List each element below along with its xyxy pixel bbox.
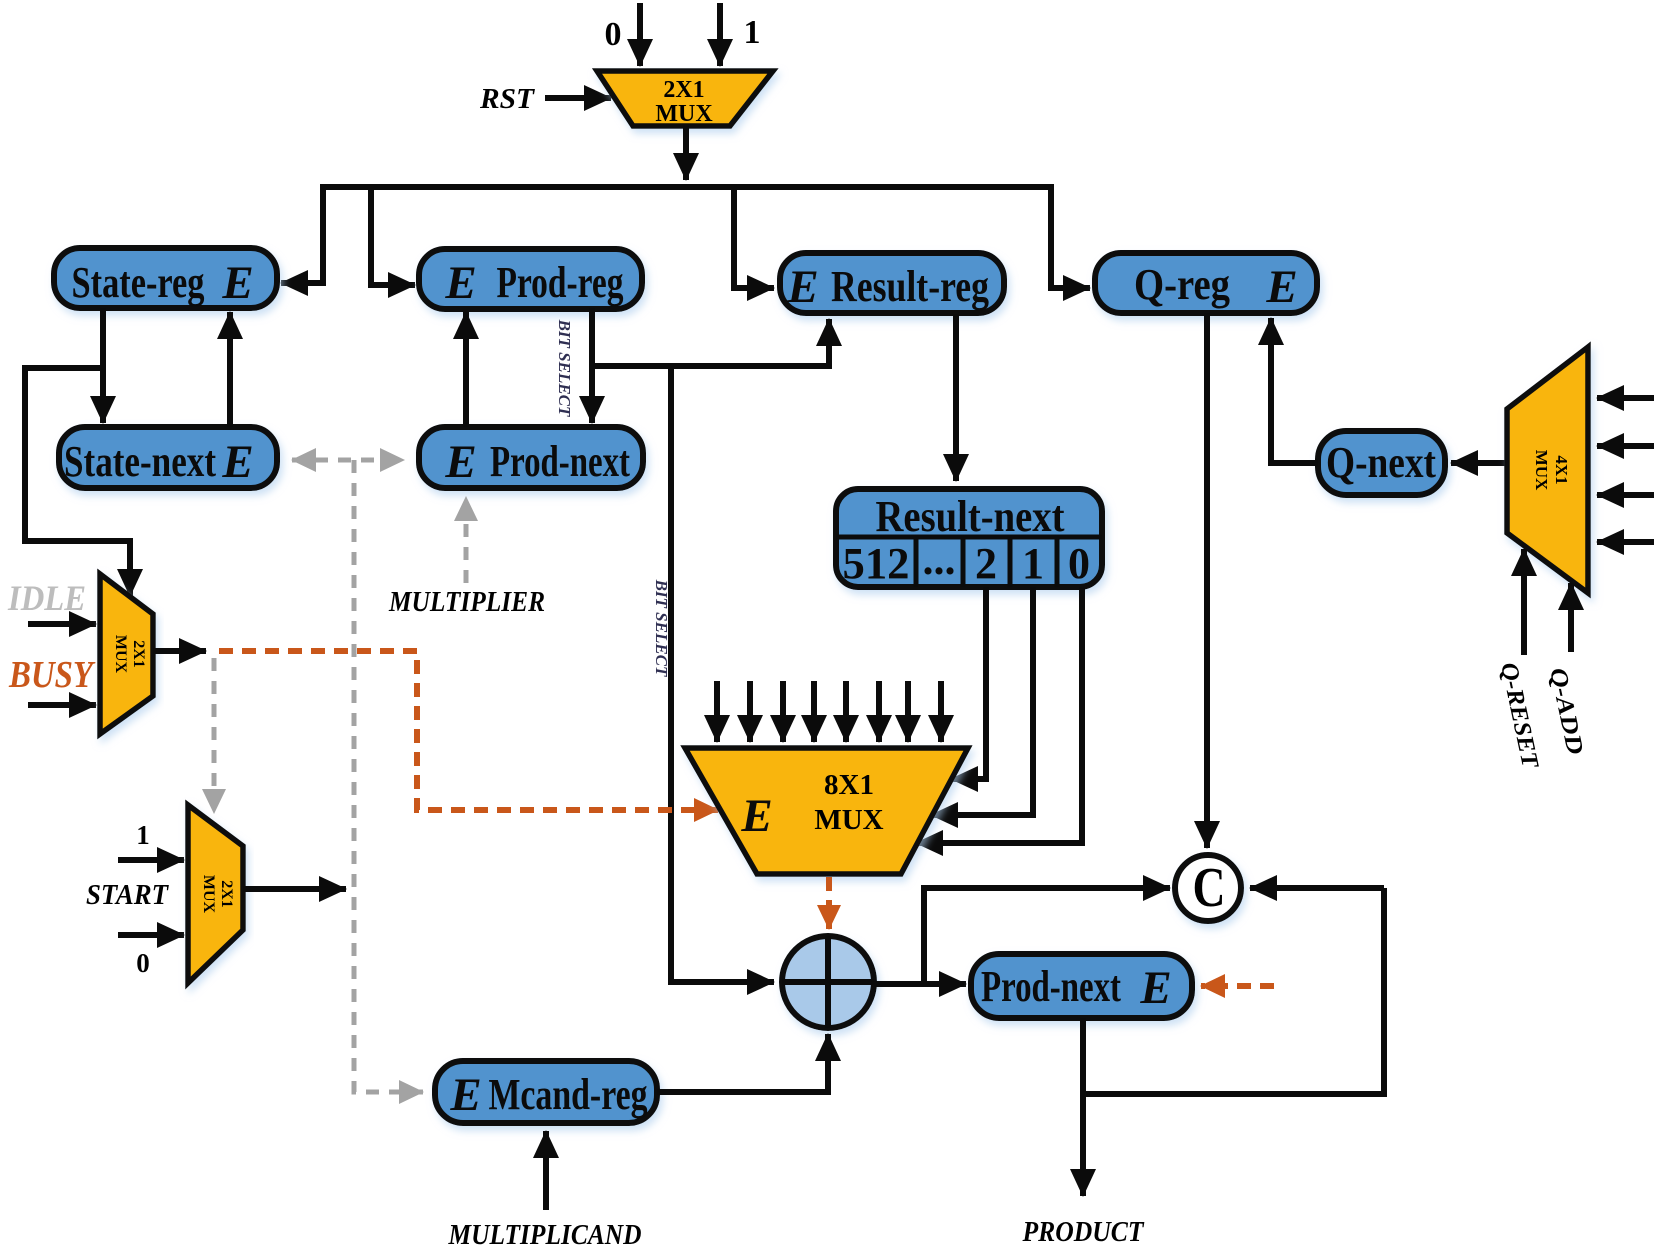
svg-text:Q-RESET: Q-RESET [1495, 660, 1543, 771]
svg-text:Q-ADD: Q-ADD [1544, 665, 1588, 756]
svg-text:BUSY: BUSY [8, 654, 96, 696]
svg-text:E: E [1139, 962, 1171, 1014]
svg-text:State-next: State-next [64, 437, 216, 486]
wire 8x1 mux top input 7 [905, 681, 911, 742]
svg-text:IDLE: IDLE [7, 578, 86, 618]
dashed orange 8x1 mux output to adder [826, 877, 832, 929]
svg-text:E: E [1265, 261, 1297, 313]
wire 4x1 mux to Q-next [1451, 460, 1507, 466]
wire 4x1 input c [1597, 492, 1654, 498]
svg-text:8X1: 8X1 [824, 769, 874, 801]
wire 8x1 mux top input 3 [780, 681, 786, 742]
wire MULTIPLICAND into Mcand-reg [543, 1131, 549, 1210]
wire 8x1 mux top input 2 [747, 681, 753, 742]
wire Prod-reg down to Prod-next [589, 308, 595, 423]
svg-text:MUX: MUX [655, 101, 713, 127]
wire top mux output down to distribution bus [683, 126, 689, 180]
register Result-reg [780, 253, 1004, 313]
dashed orange select to 8x1 mux [219, 651, 718, 810]
dashed gray State-next / Prod-next link [292, 458, 404, 463]
wire Mcand-reg to adder [657, 1034, 828, 1092]
svg-text:Result-reg: Result-reg [831, 262, 989, 311]
svg-text:2X1MUX: 2X1MUX [112, 635, 147, 674]
svg-text:MUX: MUX [814, 804, 883, 836]
svg-text:E: E [221, 436, 253, 488]
svg-text:RST: RST [479, 84, 536, 115]
wire U3 input 1 [118, 857, 184, 863]
wire 8x1 mux top input 6 [876, 681, 882, 742]
wire RST into top mux [545, 95, 611, 101]
svg-text:...: ... [923, 535, 956, 584]
wire 4x1 input d [1597, 539, 1654, 545]
wire U3 output [243, 886, 346, 892]
wire Q-next to Q-reg [1271, 318, 1318, 463]
svg-text:512: 512 [843, 539, 910, 588]
wire bus branch to Prod-reg [371, 187, 415, 285]
register Mcand-reg [435, 1061, 657, 1123]
wire 8x1 mux top input 4 [811, 681, 817, 742]
register State-reg [54, 248, 277, 308]
wire carry loop right into C [1250, 885, 1384, 891]
svg-text:Prod-next: Prod-next [490, 437, 630, 486]
svg-text:MULTIPLICAND: MULTIPLICAND [448, 1219, 642, 1250]
dashed orange into Prod-next [1201, 983, 1274, 989]
register State-next [59, 427, 277, 488]
mux U2 2X1 MUX (state select) [100, 574, 153, 734]
svg-text:Mcand-reg: Mcand-reg [489, 1070, 648, 1119]
wire U2 output [153, 648, 206, 654]
svg-text:BIT SELECT: BIT SELECT [652, 579, 671, 677]
wire Q-ADD into 4x1 mux [1568, 583, 1574, 652]
svg-text:E: E [221, 257, 253, 309]
svg-text:Prod-next: Prod-next [981, 962, 1121, 1011]
svg-text:2X1MUX: 2X1MUX [200, 875, 235, 914]
wire 8x1 mux top input 8 [938, 681, 944, 742]
svg-text:E: E [444, 436, 476, 488]
mux U4 8X1 MUX [685, 748, 968, 874]
register Prod-next (lower) [971, 954, 1192, 1018]
wire carry loop from product line [1085, 888, 1384, 1094]
wire input-1 into top mux [717, 3, 723, 66]
wire Q-RESET into 4x1 mux [1521, 549, 1527, 655]
svg-text:2X1: 2X1 [663, 77, 704, 103]
mux U5 4X1 MUX [1507, 347, 1588, 593]
svg-text:MULTIPLIER: MULTIPLIER [388, 586, 545, 618]
svg-text:1: 1 [136, 820, 150, 850]
adder (circled plus) [782, 936, 874, 1028]
svg-text:BIT SELECT: BIT SELECT [555, 319, 574, 417]
wire adder output to Prod-next [874, 981, 966, 987]
register Q-next [1318, 431, 1445, 495]
wire bit-select long line to adder [671, 366, 774, 982]
wire bus branch to Q-reg [1051, 184, 1090, 288]
svg-text:Result-next: Result-next [876, 492, 1065, 541]
wire bus branch to State-reg [281, 184, 323, 283]
carry node C [1175, 855, 1241, 921]
wire Result-next bit1 to 8x1 mux [931, 587, 1033, 815]
svg-text:1: 1 [1022, 539, 1044, 588]
wire bit-select branch to Result-reg [592, 319, 829, 366]
svg-text:State-reg: State-reg [72, 258, 205, 307]
register Result-next [836, 489, 1102, 587]
svg-text:E: E [444, 257, 476, 309]
wire State branch to IDLE/BUSY mux [25, 368, 130, 596]
wire BUSY input [28, 702, 96, 708]
wire 4x1 input b [1597, 443, 1654, 449]
dashed gray MULTIPLIER into Prod-next [464, 497, 469, 583]
svg-text:Q-next: Q-next [1326, 438, 1436, 487]
wire adder output branch up to carry C [924, 888, 1170, 984]
svg-text:START: START [86, 879, 169, 911]
register Q-reg [1095, 253, 1317, 313]
wire Result-next bit0 to 8x1 mux [916, 587, 1082, 843]
dashed gray select line down to Mcand-reg [354, 460, 423, 1092]
wire distribution bus [323, 184, 1051, 190]
svg-text:0: 0 [136, 948, 150, 978]
svg-text:0: 0 [1068, 539, 1090, 588]
mux U3 2X1 MUX (start select) [188, 805, 243, 983]
wire input-0 into top mux [637, 3, 643, 66]
svg-text:Prod-reg: Prod-reg [497, 258, 624, 307]
wire Prod-next up to Prod-reg [463, 312, 469, 427]
svg-text:E: E [740, 790, 772, 842]
wire 8x1 mux top input 1 [714, 681, 720, 742]
wire Prod-next down to PRODUCT [1080, 1018, 1086, 1196]
svg-text:PRODUCT: PRODUCT [1022, 1216, 1145, 1248]
dashed gray from U2 output to U3 [212, 658, 217, 813]
wire State-reg down to State-next [100, 308, 106, 423]
wire Q-reg down to carry C [1204, 313, 1210, 848]
svg-text:2: 2 [975, 539, 997, 588]
register Prod-reg [419, 249, 642, 309]
svg-text:Q-reg: Q-reg [1134, 260, 1230, 309]
mux U1 2X1 MUX (top) [597, 71, 773, 126]
svg-text:0: 0 [605, 16, 622, 53]
wire Result-reg down to Result-next [953, 314, 959, 481]
wire bus branch to Result-reg [734, 187, 774, 288]
wire IDLE input [28, 621, 96, 627]
wire 4x1 input a [1597, 395, 1654, 401]
wire State-next up to State-reg [227, 312, 233, 427]
svg-text:1: 1 [744, 14, 761, 51]
wire Result-next bit2 to 8x1 mux [951, 587, 986, 779]
wire U3 input 0 [118, 932, 184, 938]
register Prod-next (upper) [419, 427, 643, 488]
wire 8x1 mux top input 5 [843, 681, 849, 742]
svg-text:E: E [449, 1069, 481, 1121]
svg-text:E: E [786, 261, 818, 313]
svg-text:C: C [1193, 857, 1226, 919]
